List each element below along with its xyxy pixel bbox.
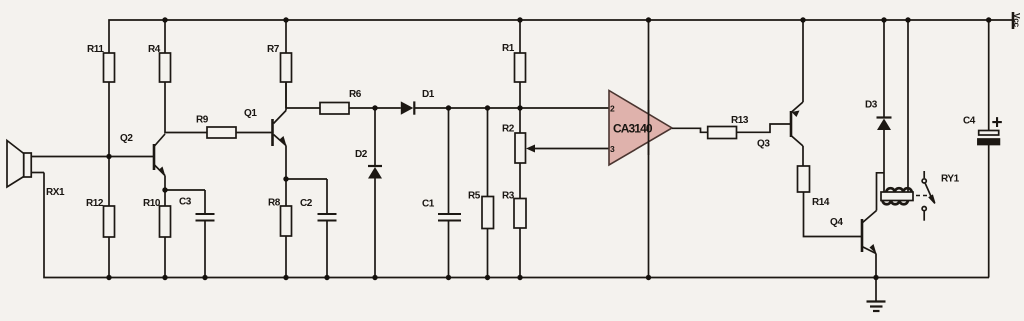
svg-text:R13: R13: [731, 115, 749, 126]
svg-text:R3: R3: [502, 191, 515, 202]
svg-text:C4: C4: [963, 116, 976, 127]
svg-text:D1: D1: [422, 89, 435, 100]
svg-text:R9: R9: [196, 115, 209, 126]
svg-text:Vcc: Vcc: [1012, 13, 1022, 27]
svg-text:R12: R12: [86, 198, 104, 209]
svg-text:R1: R1: [502, 43, 515, 54]
svg-text:R14: R14: [812, 197, 830, 208]
svg-text:Q1: Q1: [244, 108, 257, 119]
svg-text:D3: D3: [865, 100, 878, 111]
svg-text:R2: R2: [502, 124, 515, 135]
svg-text:Q3: Q3: [757, 139, 770, 150]
svg-text:R10: R10: [143, 198, 161, 209]
svg-text:C1: C1: [422, 199, 435, 210]
svg-text:RY1: RY1: [941, 174, 960, 185]
svg-text:R6: R6: [349, 89, 362, 100]
svg-text:2: 2: [610, 104, 615, 114]
svg-text:D2: D2: [355, 149, 368, 160]
svg-text:CA3140: CA3140: [613, 122, 653, 136]
svg-text:R7: R7: [267, 44, 280, 55]
svg-text:R4: R4: [148, 44, 161, 55]
svg-text:Q4: Q4: [830, 217, 843, 228]
svg-text:R11: R11: [87, 44, 104, 55]
svg-text:3: 3: [610, 144, 615, 154]
svg-text:R8: R8: [268, 198, 281, 209]
svg-text:RX1: RX1: [46, 187, 65, 198]
svg-text:C3: C3: [179, 197, 192, 208]
svg-text:C2: C2: [300, 198, 313, 209]
svg-text:Q2: Q2: [120, 133, 133, 144]
svg-text:+: +: [992, 113, 1003, 134]
svg-text:R5: R5: [468, 191, 481, 202]
